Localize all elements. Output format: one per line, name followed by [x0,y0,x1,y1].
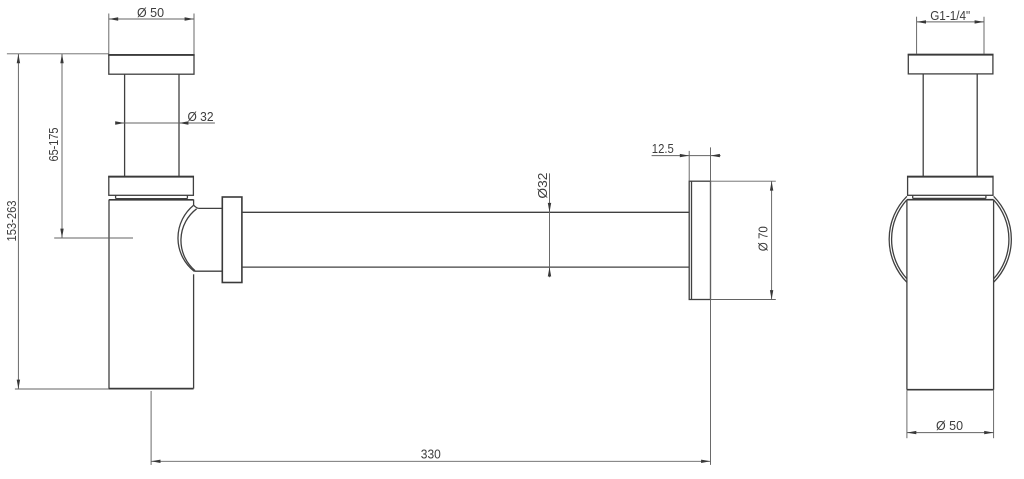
svg-text:12.5: 12.5 [652,141,674,156]
outlet slip nut [222,197,242,283]
svg-text:Ø 70: Ø 70 [756,226,771,251]
dim Ø50 top-left extension lines [108,14,110,55]
ball inner arc left (right view) [892,200,907,279]
dim G1-1/4 line [917,21,984,23]
wall line [710,147,712,465]
outlet stub top edge [199,207,223,209]
dim Ø70 line [771,181,773,299]
dim Ø32 pipe vertical line [549,173,551,277]
dim Ø70 extension lines [711,180,776,182]
extension line body bottom reference [15,388,109,390]
dim Ø32 tailpiece line [115,122,214,124]
tailpiece tube left edge [124,74,126,176]
extension line outlet axis reference [54,237,133,239]
svg-text:Ø 32: Ø 32 [188,109,214,124]
extension line top reference [7,53,109,55]
dim 330 line [151,460,710,462]
svg-text:65-175: 65-175 [46,128,61,162]
flange (right view) [908,54,993,74]
wall flange [689,181,710,299]
tailpiece tube right edge [178,74,180,176]
ball inner arc [181,209,197,271]
tube right edge (right view) [976,74,978,176]
slip nut upper [109,176,194,195]
dim 12.5 extension line [688,151,690,181]
node RIGHTVIEW [889,54,1011,389]
svg-text:153-263: 153-263 [4,201,19,242]
ball outer arc [178,205,194,271]
dim 65-175 line [61,54,63,238]
ball inner arc right (right view) [994,200,1009,279]
dim G1-1/4 extension lines [916,17,918,54]
svg-text:Ø 50: Ø 50 [936,418,963,433]
ball outer arc right (right view) [994,196,1012,282]
dim Ø50 right extension lines [906,390,908,438]
svg-text:Ø 50: Ø 50 [137,5,164,20]
ball outer arc left (right view) [889,196,907,282]
svg-text:G1-1/4": G1-1/4" [930,8,970,23]
outlet pipe bottom edge [242,266,689,268]
slip nut (right view) [908,176,993,195]
gasket under nut [115,195,117,198]
tube left edge (right view) [922,74,924,176]
dim Ø50 right line [907,432,994,434]
outlet pipe top edge [242,211,689,213]
outlet stub bottom edge [194,270,222,272]
svg-text:Ø32: Ø32 [535,173,550,199]
dim Ø50 top-left line [109,18,194,20]
svg-text:330: 330 [421,447,441,462]
trap body [109,199,194,201]
dim 12.5 line [652,155,721,157]
gasket (right view) [912,195,914,198]
dim 330 extension line left [150,391,152,465]
dim 153-263 line [17,54,19,389]
body (right view) [907,199,994,201]
wall flange face line [691,181,693,299]
node LEFTVIEW [108,55,710,465]
elbow fillet [194,205,199,208]
flange top (tailpiece flange, left view) [109,55,194,74]
